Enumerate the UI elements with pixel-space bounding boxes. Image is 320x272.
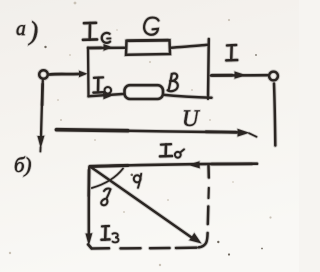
svg-text:б): б): [14, 153, 32, 177]
svg-text:U: U: [182, 106, 200, 131]
svg-text:a: a: [16, 19, 26, 40]
svg-text:): ): [28, 17, 39, 46]
